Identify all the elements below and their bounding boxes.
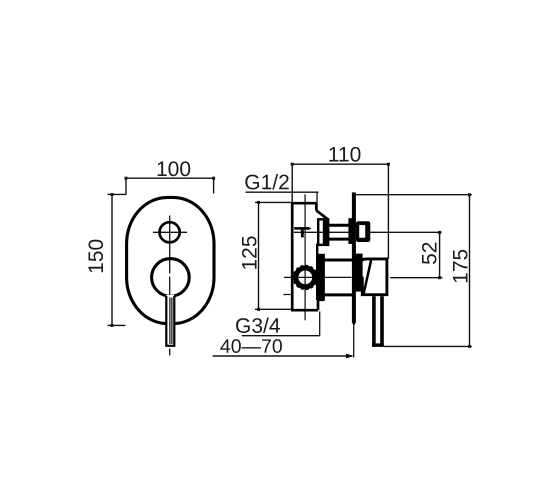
outlet nut block xyxy=(356,221,370,242)
handle lever diagonal xyxy=(364,260,372,294)
outlet axis centerline / dim 52 top extension xyxy=(294,231,442,233)
internal stop tee tip xyxy=(308,227,312,230)
wall plane line tip xyxy=(352,322,356,326)
svg-text:110: 110 xyxy=(328,143,361,166)
outlet ring before wall xyxy=(348,218,352,244)
lever stem end cap xyxy=(372,343,384,346)
dim 150 end dots xyxy=(111,193,114,196)
handle escutcheon block xyxy=(355,254,363,292)
dim 100 line xyxy=(126,177,214,179)
lever bar inner lines xyxy=(170,298,172,345)
internal stop stub xyxy=(301,230,304,238)
wall line lower extension xyxy=(353,326,355,358)
G3/4 leader riser xyxy=(319,311,321,335)
valve body outline xyxy=(291,202,328,310)
dim 125 end dots xyxy=(257,201,260,204)
handle body outline xyxy=(359,259,387,295)
dim 110 left extension xyxy=(291,164,293,202)
dim 150 top extension xyxy=(108,193,127,195)
diverter button circle xyxy=(160,222,180,242)
svg-text:G1/2: G1/2 xyxy=(244,171,290,194)
wall plane line xyxy=(352,192,356,322)
dim 110 end dots xyxy=(291,163,294,166)
dim 125 top extension xyxy=(255,201,292,203)
outlet flange rect xyxy=(318,219,328,245)
dim 110 right extension xyxy=(387,164,389,259)
dim 52 line xyxy=(439,232,441,277)
dim 150 bottom extension xyxy=(108,324,126,326)
G1/2 leader drop xyxy=(316,192,318,210)
internal stop tee bar xyxy=(294,227,308,230)
dim 150 line xyxy=(111,195,113,326)
svg-text:G3/4: G3/4 xyxy=(235,315,281,338)
40-70 leader line xyxy=(213,355,352,357)
centerline dash below lever xyxy=(169,349,171,356)
vertical centerline lower segment xyxy=(169,277,171,297)
cartridge housing bar xyxy=(318,254,325,301)
lever stem right wall xyxy=(380,296,384,347)
escutcheon plate (front view) xyxy=(127,197,214,323)
dim 175 bottom extension xyxy=(384,345,472,347)
dim 125 bottom extension xyxy=(255,308,293,310)
svg-text:150: 150 xyxy=(85,239,108,274)
diverter horizontal centerline xyxy=(153,231,187,233)
handle knob circle xyxy=(152,259,190,297)
dim 100 end dots xyxy=(125,177,128,180)
outlet nut window xyxy=(359,225,365,238)
dim 110 line xyxy=(292,163,388,165)
vertical centerline (front view) xyxy=(169,216,171,274)
inlet axis centerline xyxy=(284,276,352,278)
svg-text:52: 52 xyxy=(419,242,442,265)
dim 100 right extension xyxy=(213,178,215,193)
40-70 arrowhead xyxy=(346,354,354,359)
svg-text:40—70: 40—70 xyxy=(220,336,283,358)
lever bar outline xyxy=(165,296,175,346)
G3/4 inlet thread ring xyxy=(296,268,315,287)
outlet tube walls xyxy=(328,225,349,239)
dim 175 line xyxy=(469,195,471,347)
G3/4 inlet thread crest dashes xyxy=(294,266,317,289)
outlet flange black band xyxy=(323,218,328,245)
lever bar mask xyxy=(166,295,174,345)
dim 175 top extension xyxy=(356,194,472,196)
dim 125 line xyxy=(258,202,260,309)
dim 175 end dots xyxy=(468,193,471,196)
dim 100 left extension xyxy=(125,178,127,194)
dim 52 bottom extension xyxy=(390,277,442,279)
valve vertical centerline xyxy=(304,194,306,320)
dim 52 end dots xyxy=(438,231,441,234)
G1/2 leader underline xyxy=(246,191,319,193)
body step reference line xyxy=(284,294,291,296)
G3/4 leader underline xyxy=(242,335,320,337)
lever stem left wall xyxy=(372,296,376,347)
stem housing tube walls xyxy=(325,260,352,295)
body right edge below outlet xyxy=(316,244,318,301)
